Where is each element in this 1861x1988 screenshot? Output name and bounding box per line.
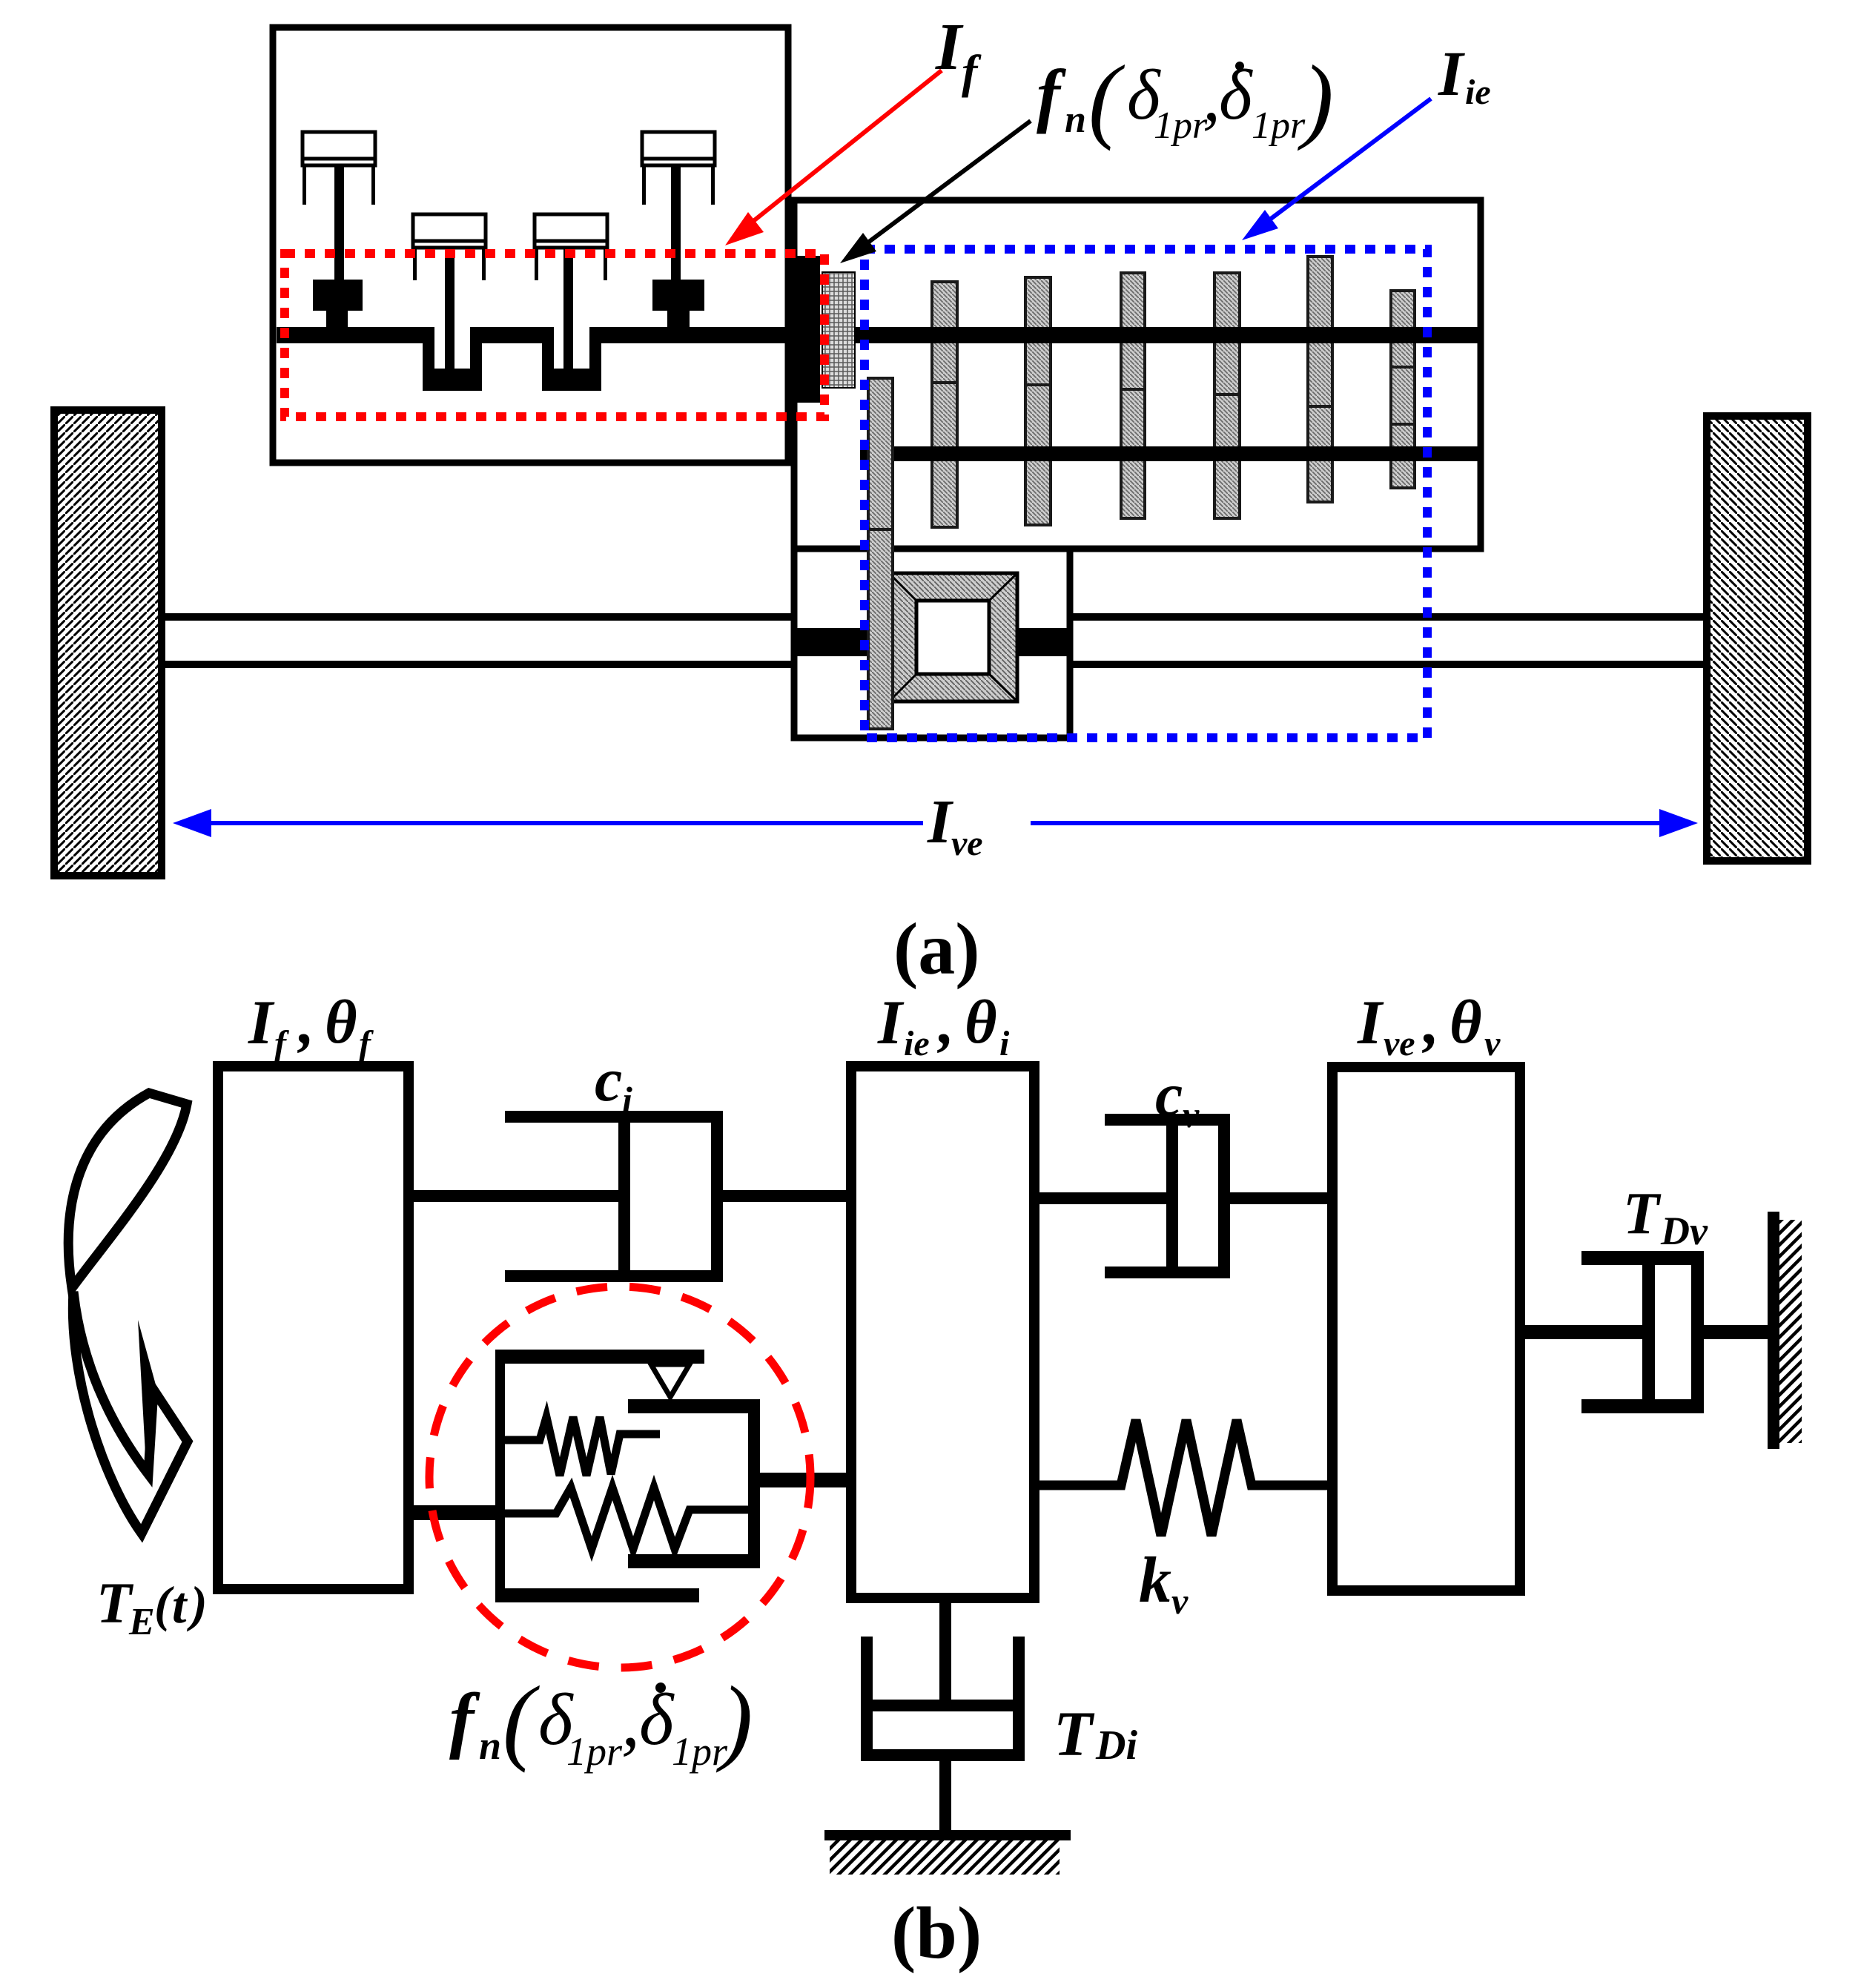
svg-text:ie: ie [904,1024,930,1063]
svg-text:t: t [172,1577,188,1634]
svg-text:Dv: Dv [1660,1209,1708,1253]
svg-text:ve: ve [1384,1024,1415,1063]
svg-text:ie: ie [1465,73,1491,112]
svg-text:i: i [622,1079,632,1120]
svg-text:v: v [1171,1580,1189,1622]
svg-text:I: I [1357,988,1384,1057]
svg-text:T: T [1054,1698,1095,1769]
svg-text:Di: Di [1095,1723,1137,1769]
svg-text:θ: θ [325,988,357,1057]
svg-text:(: ( [503,1667,540,1774]
svg-text:,: , [1203,56,1220,136]
svg-text:): ) [715,1667,753,1774]
svg-text:,: , [937,988,954,1057]
svg-text:I: I [927,787,954,856]
svg-text:I: I [1438,38,1465,109]
svg-text:i: i [999,1024,1010,1063]
svg-text:E: E [128,1601,155,1643]
svg-text:1pr: 1pr [566,1729,623,1774]
svg-text:v: v [1484,1024,1501,1063]
svg-text:(: ( [1088,46,1125,151]
svg-text:1pr: 1pr [1252,105,1306,147]
svg-text:I: I [877,988,905,1057]
svg-text:I: I [248,988,275,1057]
svg-text:n: n [1065,99,1086,141]
svg-text:,: , [1422,988,1439,1057]
svg-text:(b): (b) [891,1892,982,1974]
svg-text:1pr: 1pr [1154,105,1208,147]
svg-text:θ: θ [1450,988,1482,1057]
svg-text:n: n [479,1723,501,1768]
svg-text:,: , [297,988,314,1057]
svg-text:k: k [1139,1545,1171,1617]
svg-text:θ: θ [965,988,997,1057]
svg-text:,: , [621,1680,640,1762]
svg-text:I: I [935,10,964,84]
svg-text:c: c [595,1046,622,1114]
svg-text:T: T [1623,1181,1662,1246]
svg-text:c: c [1155,1060,1183,1129]
svg-text:ve: ve [951,824,983,863]
svg-text:v: v [1183,1094,1200,1135]
svg-text:(a): (a) [893,908,980,990]
svg-text:1pr: 1pr [672,1729,728,1774]
svg-text:): ) [1297,46,1334,151]
